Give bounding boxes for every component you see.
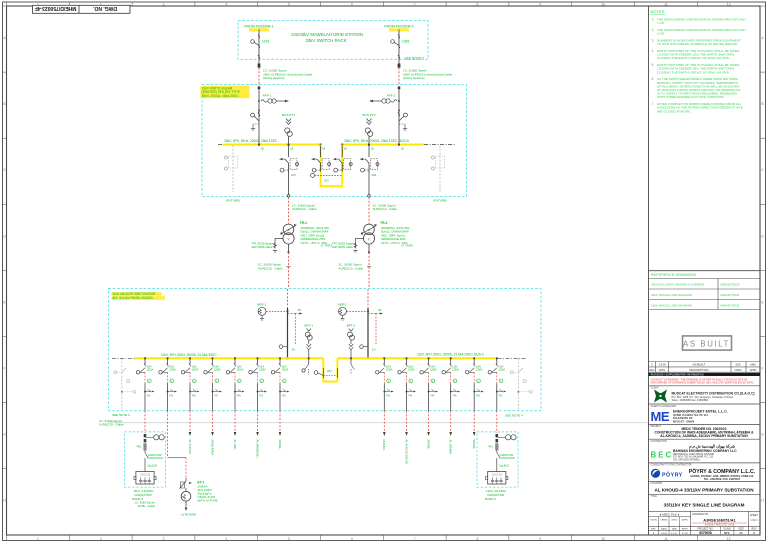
svg-text:XLPE(CU) - Cable: XLPE(CU) - Cable [339, 266, 364, 270]
svg-text:BPT-2: BPT-2 [347, 324, 356, 328]
33kV switchgear cyan dashed enclosure [202, 85, 467, 197]
svg-text:XLPE(CU) - Cable: XLPE(CU) - Cable [373, 207, 398, 211]
svg-text:1-9-09: 1-9-09 [661, 533, 668, 535]
svg-text:BUS PT2: BUS PT2 [363, 113, 376, 117]
surge arrester and CT assembly APF-1 [261, 94, 289, 104]
wire capacitor bank feeder cable x=496.8 [496, 411, 498, 433]
svg-text:12kV: 12kV [452, 367, 458, 369]
cable trench line [108, 422, 648, 424]
svg-text:4R: 4R [378, 308, 381, 312]
svg-text:CLOSING THE EARTH CIRCUIT OF R: CLOSING THE EARTH CIRCUIT OF RING VIA VP… [657, 70, 730, 74]
svg-text:4.: 4. [652, 49, 655, 53]
11kV feeder bay 747 x=212.5 [204, 357, 222, 410]
svg-text:17 TAPS: 17 TAPS [321, 244, 333, 248]
svg-text:2.: 2. [652, 28, 655, 32]
wire cable to earthing transformer [168, 411, 187, 478]
svg-text:SCALE: SCALE [723, 527, 731, 530]
svg-text:3: 3 [163, 537, 165, 541]
svg-text:33kV SINGLE LINE DIAGRAM: 33kV SINGLE LINE DIAGRAM [651, 293, 693, 297]
wire 33kV incomer bay x=259 [258, 87, 261, 90]
outgoing 11kV cable feeder x=428.6 [428, 411, 430, 432]
svg-text:MECHANICAL, ELECTRICAL DIVISIO: MECHANICAL, ELECTRICAL DIVISION [673, 453, 714, 456]
svg-text:CHKD: CHKD [671, 519, 678, 521]
svg-text:7: 7 [414, 537, 416, 541]
svg-text:6.: 6. [652, 77, 655, 81]
svg-text:741: 741 [147, 394, 152, 397]
svg-text:MHE/D/75224: MHE/D/75224 [721, 293, 740, 297]
wire 11kV cable from TR-1 to switchgear [287, 244, 291, 287]
svg-text:745: 745 [192, 394, 197, 397]
svg-text:1N: 1N [372, 348, 375, 352]
cable sealing end feeder FROM FEEDER-1 [258, 64, 261, 68]
svg-text:6070008: 6070008 [699, 531, 712, 535]
svg-text:12kV: 12kV [408, 367, 414, 369]
svg-text:6: 6 [351, 2, 353, 6]
outgoing 11kV cable feeder x=257.5 [257, 411, 259, 432]
svg-text:33kV SWITCH RACK: 33kV SWITCH RACK [305, 38, 346, 43]
svg-text:FROM FEEDER-2: FROM FEEDER-2 [384, 24, 413, 28]
svg-text:BAHWAN ENGINEERING COMPANY LLC: BAHWAN ENGINEERING COMPANY LLC [673, 449, 737, 453]
svg-text:17 TAPS: 17 TAPS [401, 244, 413, 248]
svg-text:with GMS cable: with GMS cable [252, 245, 273, 249]
svg-text:XLPE(CU) - Cable: XLPE(CU) - Cable [292, 207, 317, 211]
outgoing 11kV cable feeder x=474.2 [473, 411, 475, 432]
svg-text:SPARE: SPARE [472, 440, 476, 449]
svg-text:751: 751 [259, 394, 264, 397]
svg-text:SEE NOTE 4: SEE NOTE 4 [112, 413, 130, 417]
svg-text:8: 8 [477, 537, 479, 541]
svg-text:CONTACTOR: CONTACTOR [148, 457, 163, 460]
11kV bus riser left of bus section [302, 357, 310, 375]
svg-text:AL MAWALEH: AL MAWALEH [255, 440, 259, 458]
svg-text:5: 5 [288, 2, 290, 6]
svg-text:5.: 5. [652, 63, 655, 67]
svg-text:12kV: 12kV [147, 367, 153, 369]
svg-text:1250A: 1250A [192, 368, 199, 371]
svg-text:1250A: 1250A [408, 368, 415, 371]
wire 33kV cable to transformer TR-1 [288, 171, 290, 195]
svg-text:AL JIFNAIN: AL JIFNAIN [449, 440, 453, 455]
grid station cyan dashed enclosure [238, 21, 428, 60]
svg-text:1B: 1B [371, 147, 374, 151]
capacitor bank unit box x=496.8 [486, 472, 508, 485]
svg-text:11: 11 [664, 537, 668, 541]
33kV switchgear yellow highlighted label [201, 86, 250, 98]
svg-text:SEE NOTE-7: SEE NOTE-7 [405, 57, 425, 61]
svg-text:1250A: 1250A [237, 368, 244, 371]
svg-text:PÖYRY: PÖYRY [662, 471, 683, 478]
svg-text:1250A: 1250A [282, 368, 289, 371]
svg-text:5: 5 [288, 537, 290, 541]
svg-text:1250A: 1250A [214, 368, 221, 371]
svg-text:7: 7 [414, 2, 416, 6]
svg-text:C1 C2 C3: C1 C2 C3 [492, 474, 503, 476]
svg-text:1015: 1015 [262, 40, 269, 44]
svg-text:◄ MEDC FILE ►: ◄ MEDC FILE ► [659, 512, 680, 516]
svg-text:XLPE - Cable: XLPE - Cable [137, 504, 155, 508]
future 33kV bay left (dashed) [225, 146, 448, 203]
svg-text:12: 12 [727, 2, 731, 6]
svg-text:APPD: APPD [682, 527, 688, 530]
consultant to contractor divider [649, 462, 761, 464]
33kV busbar section 1 (yellow) [223, 144, 321, 146]
title block top divider [649, 270, 761, 272]
revisions black header bar [649, 373, 761, 376]
location row divider [649, 481, 761, 483]
note 7. [652, 102, 743, 113]
capacitor bank switch unit x=145 [137, 434, 165, 472]
svg-text:33kV, 3PH, 50Hz, 2000A, 25kA 1: 33kV, 3PH, 50Hz, 2000A, 25kA 1SEC [224, 139, 278, 143]
surge arrester and CT assembly APF-2 [369, 94, 397, 104]
svg-text:A3NSE16E051/A1: A3NSE16E051/A1 [703, 517, 736, 522]
note 5. [652, 63, 740, 74]
consultant row divider [649, 403, 761, 405]
rotated DWG NO title box top-left [33, 5, 131, 14]
svg-text:203: 203 [324, 179, 329, 183]
svg-text:BUS PT1: BUS PT1 [282, 113, 295, 117]
wire grid feeder FROM FEEDER-1 drop [258, 30, 260, 64]
svg-text:RUSAYL: RUSAYL [382, 440, 386, 451]
11kV feeder bay 749 x=235 [226, 357, 244, 410]
svg-text:203: 203 [372, 173, 377, 177]
svg-text:BANK-2: BANK-2 [485, 497, 496, 501]
11kV bus riser right of bus section [350, 357, 354, 374]
svg-text:1250A: 1250A [386, 368, 393, 371]
note 6. [652, 77, 741, 99]
note 2. [652, 28, 747, 36]
33kV transformer feeder breaker TR2 bay [360, 146, 380, 178]
svg-text:33/11kV KEY SINGLE LINE DIAGRA: 33/11kV KEY SINGLE LINE DIAGRAM [664, 502, 745, 507]
earthing transformer rating label [198, 480, 218, 502]
outgoing 11kV cable feeder x=384.3 [383, 411, 385, 432]
svg-text:1N: 1N [292, 348, 295, 352]
svg-text:REFERENCE DRAWINGS: REFERENCE DRAWINGS [651, 273, 697, 277]
transformer TR-1 rating label [300, 221, 333, 248]
11kV switchgear yellow highlighted label [112, 292, 162, 296]
svg-text:CHKD: CHKD [735, 369, 742, 372]
svg-text:AMA: AMA [750, 364, 756, 367]
svg-text:10: 10 [601, 537, 605, 541]
svg-text:CONSULTANT TO THE CONTRACTOR: CONSULTANT TO THE CONTRACTOR [651, 464, 692, 467]
svg-text:1250A: 1250A [259, 368, 266, 371]
svg-text:1025: 1025 [402, 40, 409, 44]
svg-text:TEL: 24497209, FAX: 24497107: TEL: 24497209, FAX: 24497107 [704, 478, 741, 481]
svg-text:WITH LV FUSE: WITH LV FUSE [198, 499, 218, 503]
svg-text:33kV, 3PH, 50Hz, 2000A, 25kA 1: 33kV, 3PH, 50Hz, 2000A, 25kA 1SEC, BUS-B [344, 139, 409, 143]
svg-text:ENERGOPROJEKT ENTEL L.L.C.: ENERGOPROJEKT ENTEL L.L.C. [673, 409, 728, 413]
svg-text:4: 4 [225, 537, 227, 541]
svg-text:10: 10 [601, 2, 605, 6]
svg-text:33kV/11kV SWITCHGEAR ALIGNMENT: 33kV/11kV SWITCHGEAR ALIGNMENT [651, 282, 705, 286]
33kV busbar section 2 (yellow) [342, 144, 424, 146]
svg-text:F: F [3, 367, 5, 371]
svg-text:TITLE: TITLE [651, 496, 658, 498]
svg-text:11: 11 [664, 2, 668, 6]
33kV bus coupler yellow tie [321, 145, 343, 187]
33kV bus coupler link circle [311, 173, 315, 177]
svg-text:4R1: 4R1 [137, 446, 142, 449]
svg-text:12kV: 12kV [430, 367, 436, 369]
AS BUILT stamp [683, 336, 732, 350]
svg-text:LV BOARD: LV BOARD [181, 513, 197, 517]
transformer TR-1 neutral earthing branch [273, 238, 284, 252]
svg-text:1250A: 1250A [452, 368, 459, 371]
svg-text:103: 103 [291, 173, 296, 177]
svg-text:748: 748 [452, 394, 457, 397]
svg-text:SIZE: SIZE [738, 527, 744, 530]
svg-text:DESCRIPTION: DESCRIPTION [689, 368, 708, 372]
svg-text:NER-2: NER-2 [338, 303, 348, 307]
svg-text:PROJECT NO.: PROJECT NO. [697, 527, 713, 530]
33kV bus voltage transformer BUS PT2 [363, 113, 376, 144]
svg-text:SHEET: SHEET [750, 514, 759, 517]
svg-text:1B: 1B [290, 147, 293, 151]
svg-text:1 NO.: 1 NO. [657, 32, 665, 36]
project row divider [649, 424, 761, 426]
33kV busbar junction nodes [258, 144, 404, 151]
wire capacitor bank feeder cable x=145 [144, 411, 146, 433]
svg-text:753: 753 [282, 394, 287, 397]
svg-text:1: 1 [37, 537, 39, 541]
svg-text:12kV: 12kV [259, 367, 265, 369]
svg-text:3: 3 [163, 2, 165, 6]
svg-text:BPT-1: BPT-1 [304, 324, 313, 328]
svg-text:XLPE(CU) - Cable: XLPE(CU) - Cable [99, 423, 124, 427]
svg-text:REV: REV [651, 528, 656, 530]
outgoing 11kV cable feeder x=406.5 [406, 411, 408, 432]
svg-text:1B: 1B [344, 147, 347, 151]
svg-text:TO SITE AND CABLES, SCHEDULE O: TO SITE AND CABLES, SCHEDULE OF RATING R… [657, 42, 738, 46]
svg-text:747: 747 [214, 394, 219, 397]
33kV XLPE cable from grid x=399 [398, 68, 400, 87]
svg-text:AL KHOUD-4 33/11kV PRIMARY SUB: AL KHOUD-4 33/11kV PRIMARY SUBSTATION [654, 487, 754, 492]
svg-text:4-7-07: 4-7-07 [682, 533, 689, 535]
Poyry logo [651, 469, 683, 479]
wire grid feeder FROM FEEDER-2 drop [398, 30, 400, 64]
reference drawings table [649, 279, 761, 310]
wire 33kV incomer bay x=399 [398, 87, 401, 90]
outgoing 11kV cable feeder x=450.7 [450, 411, 452, 432]
svg-text:F: F [761, 367, 763, 371]
svg-text:12: 12 [727, 537, 731, 541]
svg-text:DRN: DRN [672, 528, 677, 530]
svg-text:11kV, 3PH, 50Hz, 2000A, 31.5kA: 11kV, 3PH, 50Hz, 2000A, 31.5kA 3SEC, BUS… [417, 353, 484, 357]
svg-text:APF-1: APF-1 [263, 94, 272, 98]
revision table [649, 362, 761, 373]
svg-text:4R: 4R [298, 308, 301, 312]
disconnector with earth switch 33kV incomer x=259 [251, 113, 255, 117]
svg-text:12kV: 12kV [237, 367, 243, 369]
svg-text:MHE/D/75225: MHE/D/75225 [721, 303, 740, 307]
svg-text:AS BUILT: AS BUILT [683, 339, 730, 348]
svg-text:(FUTURE): (FUTURE) [433, 199, 447, 203]
isolator break in grid feeder FROM FEEDER-1 [258, 55, 260, 59]
33kV bus coupler breaker right 203B [333, 146, 353, 172]
svg-text:AL KHOUD SOUTH: AL KHOUD SOUTH [404, 440, 408, 465]
svg-text:743: 743 [169, 394, 174, 397]
neutral earthing resistor NER-1 [257, 303, 287, 320]
client row divider [649, 385, 761, 387]
disconnector switch 1025 in grid station [398, 35, 400, 39]
svg-text:CLIENT: CLIENT [651, 388, 660, 390]
svg-text:A1: A1 [739, 531, 743, 535]
svg-text:CLOSING THE EARTH CIRCUIT OF R: CLOSING THE EARTH CIRCUIT OF RING VIA VP… [657, 56, 730, 60]
outgoing 11kV cable feeder x=280 [279, 411, 281, 432]
svg-text:12kV: 12kV [214, 367, 220, 369]
11kV feeder bay 753 x=280 [271, 357, 289, 410]
11kV feeder bay 742 x=384.3 [376, 357, 394, 410]
svg-text:9: 9 [539, 2, 541, 6]
svg-text:Cap BUS: Cap BUS [499, 464, 509, 467]
svg-text:132/33kV MAWELAH GRID STATION: 132/33kV MAWELAH GRID STATION [291, 32, 363, 37]
svg-text:TEL: 24701293 24795916: TEL: 24701293 24795916 [673, 459, 700, 461]
svg-text:AS BUILT: AS BUILT [692, 363, 705, 367]
transformer TR-2 neutral earthing branch [354, 238, 365, 252]
svg-text:AL-KHOUD-4, JAZMINA, 33/11kV P: AL-KHOUD-4, JAZMINA, 33/11kV PRIMARY SUB… [660, 434, 748, 438]
svg-text:AL HAIL: AL HAIL [233, 440, 237, 451]
svg-text:CONTACTOR: CONTACTOR [500, 457, 515, 460]
power transformer TR-1 20MVA 33/11.5kV [280, 224, 297, 244]
note 3. [652, 39, 741, 47]
11kV feeder bay 746 x=428.6 [420, 357, 438, 410]
earthing transformer fuse switch [180, 478, 193, 492]
svg-text:DWG. NO.: DWG. NO. [92, 5, 116, 11]
svg-text:DRAWING NO.: DRAWING NO. [693, 513, 710, 516]
11kV bus section breaker 252 [314, 368, 337, 378]
svg-text:G: G [3, 433, 6, 437]
power transformer TR-2 20MVA 33/11.5kV [361, 224, 378, 244]
svg-text:1-9-09: 1-9-09 [658, 364, 666, 367]
svg-text:11kV, 3PH, 50Hz, 2000A, 31.5kA: 11kV, 3PH, 50Hz, 2000A, 31.5kA 3SEC [161, 353, 217, 357]
title block bottom table [649, 511, 761, 535]
svg-text:AS BUILT PER SITE 1-9-09: AS BUILT PER SITE 1-9-09 [705, 524, 735, 527]
capacitor bank cyan dashed enclosure x=124.4 [124, 432, 165, 487]
svg-text:MUSCAT ELECTRICITY DISTRIBUTIO: MUSCAT ELECTRICITY DISTRIBUTION CO.(S.A.… [672, 391, 755, 395]
svg-text:DATE: DATE [661, 527, 667, 530]
11kV switchgear cyan dashed enclosure [108, 289, 541, 411]
11kV bus voltage transformer BPT-1 [304, 324, 313, 360]
svg-text:750: 750 [476, 394, 481, 397]
capacitor bank cyan dashed enclosure x=477 [477, 432, 518, 487]
earthing transformer ET-1 [181, 491, 191, 511]
svg-text:752: 752 [498, 394, 503, 397]
note 4. [652, 49, 740, 60]
wire 11kV incomer x=368 [367, 289, 369, 308]
svg-text:SEE NOTE 4: SEE NOTE 4 [505, 413, 523, 417]
title row divider [649, 493, 761, 495]
cable sealing end feeder FROM FEEDER-2 [398, 64, 401, 68]
11kV feeder bay 748 x=450.7 [442, 357, 460, 410]
11kV busbar dash-dot extensions [112, 357, 135, 359]
svg-text:(Along pipeline): (Along pipeline) [403, 76, 425, 80]
svg-text:B E C: B E C [651, 451, 672, 460]
svg-text:1250A: 1250A [430, 368, 437, 371]
svg-text:TR-1: TR-1 [300, 221, 308, 225]
svg-text:12kV: 12kV [498, 367, 504, 369]
svg-text:(FUTURE): (FUTURE) [226, 199, 240, 203]
11kV feeder bay 744 x=406.5 [398, 357, 416, 410]
svg-text:LOCATION: LOCATION [651, 482, 663, 485]
11kV busbar section 2 (yellow) [337, 357, 497, 359]
svg-text:NER-1: NER-1 [257, 303, 267, 307]
svg-text:12kV: 12kV [386, 367, 392, 369]
disconnector with earth switch 33kV incomer x=399 [404, 113, 408, 117]
svg-text:WITH OTHER DRAWINGS AT SITE CO: WITH OTHER DRAWINGS AT SITE CONDITION. [657, 95, 725, 99]
svg-text:1250A: 1250A [498, 368, 505, 371]
svg-text:SEEB AREA: SEEB AREA [210, 440, 214, 456]
svg-text:ME: ME [651, 409, 670, 424]
11kV bus voltage transformer BPT-2 [347, 324, 356, 360]
svg-text:DATE: DATE [659, 369, 666, 372]
svg-text:1 OF 1: 1 OF 1 [750, 519, 758, 522]
svg-text:1 NO.: 1 NO. [657, 21, 665, 25]
33kV XLPE cable from grid x=259 [258, 68, 260, 87]
svg-text:1250A: 1250A [476, 368, 483, 371]
svg-text:11kV SINGLE LINE DIAGRAM: 11kV SINGLE LINE DIAGRAM [651, 303, 692, 307]
svg-text:1250A: 1250A [147, 368, 154, 371]
svg-text:THE SWITCHGEAR CONFIGURATION S: THE SWITCHGEAR CONFIGURATION SHOWN ARE F… [657, 18, 746, 22]
svg-text:TR-2: TR-2 [380, 221, 388, 225]
svg-text:DRWN: DRWN [660, 519, 667, 521]
33kV busbar dash-dot extensions [218, 144, 223, 146]
svg-text:APPD: APPD [682, 518, 688, 521]
svg-text:749: 749 [237, 394, 242, 397]
svg-text:MUSCAT - OMAN: MUSCAT - OMAN [673, 419, 694, 423]
svg-text:4R1: 4R1 [488, 446, 493, 449]
svg-text:G: G [761, 433, 764, 437]
capacitor bank unit box x=145 [134, 472, 156, 485]
svg-text:12kV: 12kV [282, 367, 288, 369]
svg-text:12kV: 12kV [192, 367, 198, 369]
svg-text:NTS.: NTS. [724, 531, 730, 535]
11kV bus section yellow tie [323, 358, 337, 381]
svg-text:SSA: SSA [735, 364, 740, 367]
svg-text:MHE/D/750023-4F: MHE/D/750023-4F [35, 5, 77, 11]
note 1. [652, 18, 747, 26]
svg-text:252: 252 [327, 369, 332, 373]
11kV feeder bay 751 x=257.5 [249, 357, 267, 410]
svg-text:PER MARKED UP DRAWINGS SUBMITT: PER MARKED UP DRAWINGS SUBMITTED BY BEC … [651, 381, 755, 385]
11kV feeder bay 750 x=474.2 [466, 357, 484, 410]
svg-text:XLPE(CU) - Cable: XLPE(CU) - Cable [258, 266, 283, 270]
svg-text:1B: 1B [261, 147, 264, 151]
svg-text:8: 8 [477, 2, 479, 6]
svg-text:1B: 1B [401, 147, 404, 151]
contractor row divider [649, 438, 761, 440]
svg-text:Telep.: 24563666 Fax: 2456096: Telep.: 24563666 Fax: 24560966 [672, 399, 709, 402]
svg-text:REV: REV [752, 527, 757, 530]
wire 11kV incomer x=287.5 [287, 289, 289, 308]
svg-text:AND CLOSE UP WORK.: AND CLOSE UP WORK. [657, 109, 691, 113]
svg-text:PROJECT: PROJECT [651, 426, 662, 428]
svg-text:SPARE: SPARE [426, 440, 430, 449]
svg-text:4: 4 [225, 2, 227, 6]
11kV feeder bay 752 x=496.8 [488, 357, 506, 410]
11kV feeder bay 745 x=190 [181, 357, 199, 410]
svg-text:REV: REV [650, 369, 655, 372]
svg-text:CLIENT'S CONSULTANT: CLIENT'S CONSULTANT [651, 405, 678, 408]
svg-text:FROM FEEDER-1: FROM FEEDER-1 [244, 24, 273, 28]
svg-text:36kV, 2000A, 25kA 3SEC: 36kV, 2000A, 25kA 3SEC [202, 94, 240, 98]
MEDC client logo [654, 390, 667, 403]
svg-text:(Along pipeline): (Along pipeline) [263, 76, 285, 80]
incomer NER-2 red test link jog [360, 308, 383, 352]
svg-text:with GMS cable: with GMS cable [332, 245, 353, 249]
isolator break in grid feeder FROM FEEDER-2 [398, 55, 400, 59]
svg-text:1.: 1. [652, 18, 655, 22]
svg-text:PÖYRY & COMPANY L.L.C.: PÖYRY & COMPANY L.L.C. [689, 468, 756, 475]
svg-text:12kV: 12kV [169, 367, 175, 369]
